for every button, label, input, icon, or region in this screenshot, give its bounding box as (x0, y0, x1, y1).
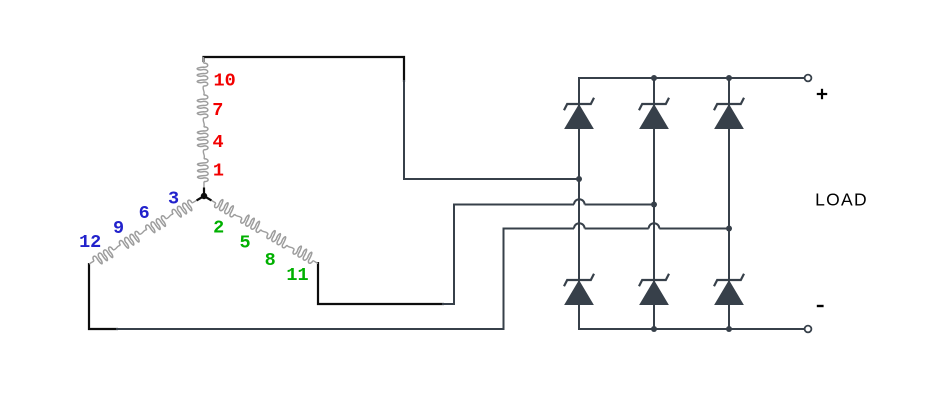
wire phase-B to D3 junction (659, 228, 729, 230)
terminal positive output (805, 75, 812, 82)
svg-text:3: 3 (168, 189, 179, 210)
svg-text:9: 9 (113, 218, 124, 239)
junction D5 negative bus (651, 326, 657, 332)
svg-text:11: 11 (286, 265, 308, 286)
wire hop phase-B over column 1 (574, 223, 585, 228)
wire phase-B to rectifier (116, 229, 574, 330)
winding phase C (right diagonal, coils 2-5-8-11) (204, 196, 318, 264)
junction D3 top bus (726, 75, 732, 81)
diode D4 (bottom row) (564, 274, 594, 305)
wire phase-C to rectifier (442, 205, 574, 305)
svg-text:LOAD: LOAD (815, 190, 868, 210)
winding phase B (left diagonal, coils 3-6-9-12) (89, 196, 204, 264)
diode D6 (bottom row) (714, 274, 744, 305)
junction phase-A column 1 (576, 176, 582, 182)
junction phase-B column 3 (726, 226, 732, 232)
wire column 1 (D1/D4) (578, 104, 580, 304)
diode D3 (top row) (714, 98, 744, 129)
diode D2 (top row) (639, 98, 669, 129)
wire hop phase-B over column 2 (649, 223, 660, 228)
svg-text:12: 12 (79, 232, 101, 253)
wire phase-C lead (green winding, black) (318, 262, 444, 304)
terminal negative output (805, 326, 812, 333)
svg-text:2: 2 (213, 218, 224, 239)
diode D1 (top row) (564, 98, 594, 129)
svg-text:7: 7 (212, 100, 223, 121)
diode D5 (bottom row) (639, 274, 669, 305)
wire positive bus (579, 78, 805, 104)
wire phase-A to rectifier (404, 80, 579, 179)
wire negative bus (579, 304, 805, 329)
svg-text:8: 8 (265, 250, 276, 271)
label + (817, 89, 827, 99)
junction D2 top bus (651, 75, 657, 81)
wire phase-B lead (blue winding, black) (89, 263, 118, 329)
svg-text:10: 10 (213, 70, 235, 91)
svg-text:5: 5 (239, 232, 250, 253)
winding phase A (vertical, coils 10-7-4-1) (197, 57, 208, 196)
svg-text:1: 1 (213, 160, 224, 181)
junction D6 negative bus (726, 326, 732, 332)
wire column 3 (D3/D6) (728, 78, 730, 329)
junction phase-C column 2 (651, 202, 657, 208)
node wye center (197, 188, 212, 201)
wire phase-C to D2 junction (585, 204, 654, 206)
label - (817, 305, 824, 307)
wire hop phase-C over column 1 (574, 199, 585, 204)
wire phase-A lead (top, black) (204, 57, 405, 82)
svg-text:6: 6 (139, 203, 150, 224)
svg-text:4: 4 (212, 132, 223, 153)
wire column 2 (D2/D5) (653, 78, 655, 329)
wire phase-B between hops (585, 228, 649, 230)
